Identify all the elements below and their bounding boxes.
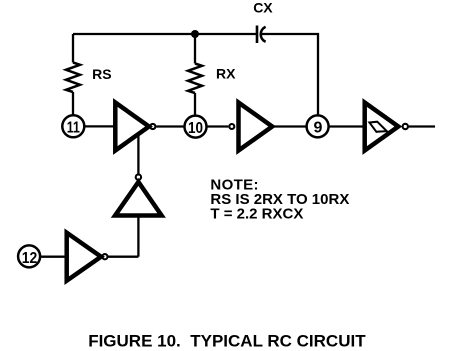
wire U4 output to corner: [108, 256, 138, 258]
wire node9 to U3 input: [328, 125, 365, 127]
svg-text:10: 10: [188, 120, 203, 137]
resistor RX: [188, 64, 202, 94]
inverter U1 output bubble: [150, 124, 155, 129]
wire node12 to U4 input: [40, 256, 67, 258]
pin circle 12: [18, 245, 40, 267]
svg-text:FIGURE 10. TYPICAL RC CIRCUIT: FIGURE 10. TYPICAL RC CIRCUIT: [88, 332, 366, 351]
wire node11 to U1 input: [84, 125, 115, 127]
wire U1 output to node10: [156, 125, 185, 127]
hysteresis symbol: [369, 122, 386, 132]
wire top horizontal right segment and right drop to node 9: [262, 34, 319, 115]
node junction dot: [191, 30, 199, 38]
inverter U2 input bubble: [229, 124, 234, 129]
capacitor C X plates: [257, 26, 266, 44]
svg-text:RS: RS: [92, 66, 111, 82]
resistor RS: [66, 63, 80, 93]
wire top horizontal left segment: [73, 33, 257, 35]
wire U2 output to node9: [273, 125, 307, 127]
svg-text:9: 9: [314, 120, 323, 137]
svg-text:12: 12: [22, 250, 38, 267]
svg-text:11: 11: [67, 120, 80, 137]
inverter U1: [115, 103, 149, 151]
svg-text:CX: CX: [253, 0, 273, 15]
inverter U4 output bubble: [102, 254, 107, 259]
inverter U4: [67, 233, 101, 281]
inverter U2: [239, 103, 273, 151]
svg-text:T = 2.2 RXCX: T = 2.2 RXCX: [210, 206, 303, 223]
inverter U5 upward triangle: [115, 182, 162, 216]
schmitt inverter U3: [365, 103, 399, 151]
wire node10 to U2 input bubble: [206, 125, 228, 127]
inverter U3 output bubble: [403, 124, 408, 129]
wire RS lower lead: [72, 92, 74, 115]
wire RX lower lead: [194, 93, 196, 115]
pin circle 10: [185, 116, 207, 138]
inverter U5 output bubble: [136, 174, 141, 179]
svg-text:RX: RX: [216, 65, 236, 81]
wire RX upper lead: [194, 34, 196, 64]
wire U1 bottom drop to U5 bubble: [137, 135, 139, 174]
pin circle 11: [62, 115, 84, 137]
wire U5 base down to corner: [137, 216, 139, 257]
pin circle 9: [307, 115, 329, 137]
wire U3 output: [409, 125, 435, 127]
wire RS upper lead: [72, 34, 74, 63]
